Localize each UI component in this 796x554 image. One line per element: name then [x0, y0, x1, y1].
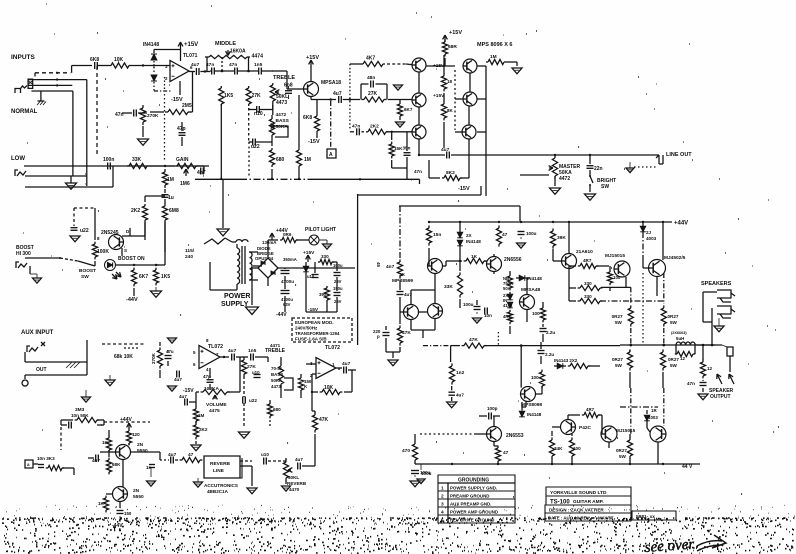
label +15V ps [303, 250, 315, 262]
wire aux mid [160, 342, 168, 378]
svg-text:u22: u22 [249, 398, 257, 403]
jack AUX OUT [22, 367, 47, 386]
resistor 1K drv2 [98, 496, 109, 513]
wire y155 lineout [418, 154, 659, 156]
svg-text:10n 50K: 10n 50K [71, 413, 89, 418]
diode 2X IN4148 pa [457, 222, 481, 252]
label DIODE BRIDGE [255, 246, 274, 261]
resistor 33K [127, 157, 149, 169]
capacitor 1u [162, 195, 174, 201]
svg-text:A: A [329, 152, 333, 158]
wire rev ret [268, 460, 286, 462]
svg-text:1n2: 1n2 [456, 370, 465, 376]
resistor 39K pa [550, 228, 566, 248]
resistor 120 drv [126, 429, 140, 446]
wire diode dotted mid [153, 61, 155, 73]
jack speaker 1 [717, 290, 735, 302]
label -15V ps [308, 307, 319, 313]
wire x223 vert [222, 179, 224, 228]
svg-text:115/: 115/ [185, 248, 195, 254]
pin 6 [190, 65, 193, 70]
svg-text:u22: u22 [80, 228, 89, 234]
label 2N6556 [504, 257, 522, 263]
svg-text:0R27: 0R27 [668, 357, 679, 362]
capacitor 10u ps [307, 274, 319, 279]
resistor 2K2 aux [193, 423, 207, 440]
wire bank col left [406, 63, 412, 66]
wire mpsa48 [514, 278, 543, 322]
svg-text:POWER SUPPLY GND.: POWER SUPPLY GND. [450, 486, 497, 491]
resistor 12 outA [675, 351, 695, 361]
transistor 2N6553 [487, 427, 502, 442]
label VOLUME 4475 [206, 402, 227, 414]
svg-text:680: 680 [273, 407, 281, 412]
capacitor 4700u a [281, 271, 295, 285]
ground speakers [714, 318, 724, 332]
svg-text:100: 100 [532, 311, 540, 316]
svg-text:+15V: +15V [303, 250, 315, 256]
node A box [327, 149, 336, 158]
label 47n bank [414, 169, 422, 174]
wire 6k8 [316, 100, 318, 139]
svg-text:n10: n10 [254, 111, 263, 117]
capacitor 100u drv [117, 511, 132, 517]
svg-text:IN4148: IN4148 [466, 239, 481, 244]
wire drv dash [61, 422, 150, 450]
svg-text:TREBLE: TREBLE [265, 348, 286, 354]
svg-text:34K: 34K [554, 446, 563, 451]
ground 100u pa3 [410, 475, 420, 487]
capacitor 47u aux [165, 349, 174, 359]
jack LINE OUT [656, 155, 663, 164]
wire rev pot [286, 452, 315, 484]
label 50KL REVERB 4470 [287, 475, 307, 492]
svg-text:21A610: 21A610 [576, 249, 593, 255]
wire aux treble bot [268, 357, 301, 398]
svg-text:REVERB: REVERB [287, 481, 307, 486]
capacitor 4n7 pa low [448, 392, 464, 397]
resistor 8K2 [442, 170, 462, 181]
capacitor 2u2 paB [538, 351, 555, 358]
wire 680 aux [269, 400, 271, 426]
svg-text:ACCUTRONICS: ACCUTRONICS [204, 483, 238, 488]
diode IN4148 c [516, 275, 542, 281]
resistor 1M aux [193, 407, 204, 424]
resistor 1M bank [486, 54, 506, 65]
op-amp U1 TL071 [170, 53, 198, 82]
resistor 47 pa2 [495, 446, 508, 464]
wire mps8098 [522, 386, 542, 407]
wire u2 out [220, 356, 229, 358]
resistor 6M8 low [162, 204, 179, 222]
resistor 0R27 a [612, 305, 634, 326]
svg-text:GUITAR AMP.: GUITAR AMP. [573, 499, 604, 505]
label TIP42C [579, 425, 592, 431]
box REVERB LINE [204, 456, 242, 478]
svg-text:5550: 5550 [137, 448, 148, 454]
note see over [644, 535, 726, 554]
wire 1M up [298, 95, 300, 179]
svg-text:16K0A: 16K0A [230, 49, 246, 55]
wire opamp vcc [180, 50, 182, 62]
label -44V drv [112, 516, 123, 529]
wire 48n box [361, 84, 387, 100]
svg-text:5W: 5W [619, 454, 627, 459]
capacitor 4u7 rev [168, 452, 177, 464]
svg-text:1K5: 1K5 [224, 93, 233, 99]
capacitor u10 rev [261, 452, 269, 465]
wire u22 dash [74, 208, 95, 226]
svg-text:4u7: 4u7 [174, 377, 182, 382]
label MJ4502 [664, 255, 686, 261]
resistor 68R [442, 40, 457, 57]
svg-text:u10: u10 [252, 370, 260, 375]
pin 5 [193, 350, 196, 355]
wire 0r27e [609, 388, 631, 464]
ground lineout [626, 162, 656, 173]
svg-text:2K2: 2K2 [370, 124, 379, 130]
capacitor 47p [177, 126, 186, 135]
wire pa fb node [460, 300, 495, 311]
wire bank col right [455, 99, 486, 132]
junction rail [520, 221, 522, 223]
junction bottom rail [451, 463, 453, 465]
wire mid wiper [226, 50, 231, 56]
wire high input rowC [31, 90, 73, 92]
transistor MPS8599 b [404, 305, 419, 320]
capacitor 4n7 gain [197, 168, 206, 177]
svg-text:150u: 150u [333, 286, 343, 291]
svg-text:27K: 27K [368, 91, 378, 97]
wire fb pa [386, 305, 400, 358]
label -44V ps [276, 312, 287, 318]
wire pa top edge [399, 206, 520, 221]
capacitor 220p [373, 329, 390, 339]
svg-text:AUX INPUT: AUX INPUT [21, 330, 54, 336]
resistor 10K u3 [320, 385, 343, 395]
label +15V b3 [433, 93, 445, 99]
wire a net [33, 464, 74, 475]
label -15V opamp [171, 97, 183, 103]
wire 27k leads [350, 64, 412, 129]
svg-text:4: 4 [441, 510, 444, 516]
ground bank [512, 68, 522, 74]
lamp pilot [306, 235, 319, 245]
svg-text:+15V: +15V [306, 55, 319, 61]
svg-text:1K5: 1K5 [161, 274, 170, 280]
switch mains [204, 238, 232, 244]
wire opamp vee [179, 81, 181, 95]
wire vol tap [189, 392, 196, 407]
junction rail [662, 221, 664, 223]
wire ps rails [252, 268, 355, 305]
label 2N5610 [576, 249, 593, 255]
wire y64 top [350, 63, 406, 65]
svg-text:5550: 5550 [133, 494, 144, 500]
resistor 680 [269, 148, 284, 167]
wire bright [589, 155, 591, 176]
wire aux dash top [102, 343, 144, 345]
pin 3 [165, 64, 168, 69]
svg-text:MJ4502/5: MJ4502/5 [664, 255, 686, 261]
pot MIDDLE 16K0A [205, 49, 250, 59]
ground out [698, 394, 708, 400]
wire emitters [419, 72, 470, 155]
wire tip42 [552, 415, 602, 440]
wire t2 [237, 70, 258, 73]
capacitor 35n [403, 146, 411, 156]
junction bottom rail [662, 463, 664, 465]
svg-text:240: 240 [185, 254, 193, 260]
svg-text:5W: 5W [670, 363, 678, 368]
wire ltp [411, 222, 435, 305]
svg-text:4K7: 4K7 [366, 56, 375, 62]
wire to aux treble [255, 356, 268, 358]
capacitor 4u7 vol [179, 394, 187, 406]
svg-text:100u: 100u [333, 263, 343, 268]
resistor 1K drv [102, 436, 112, 453]
label 4471 [270, 343, 281, 348]
wire bias2 [350, 131, 412, 133]
wire 4r7 pa2 [569, 266, 609, 268]
resistor 15n pa [426, 225, 441, 245]
resistor 68K drv [106, 458, 121, 475]
svg-text:100n: 100n [103, 157, 114, 163]
svg-text:2J: 2J [646, 230, 652, 235]
svg-text:120: 120 [132, 432, 140, 437]
wire xfmr [204, 244, 262, 290]
scan noise band bottom [2, 518, 795, 552]
svg-text:10n 3K3: 10n 3K3 [37, 456, 55, 461]
svg-text:4BB2C1A: 4BB2C1A [207, 489, 229, 494]
svg-text:4u7: 4u7 [191, 62, 200, 68]
svg-text:4472: 4472 [276, 112, 287, 118]
wire ps bottom [268, 285, 300, 287]
wire out to bus [200, 70, 210, 72]
svg-text:OUT: OUT [36, 367, 47, 373]
wire bank box bottom [358, 186, 481, 195]
transistor MPS8098 [521, 387, 536, 402]
diode 2J4003 [640, 222, 656, 256]
transformer T1 primary [237, 248, 240, 284]
svg-text:4n7: 4n7 [386, 264, 395, 270]
jack BOOST [16, 262, 27, 268]
wire aux tone net [241, 357, 258, 428]
svg-text:4473: 4473 [276, 100, 287, 106]
label 100u tbl [420, 470, 431, 475]
svg-text:47u: 47u [166, 349, 174, 354]
ground pa low [447, 402, 457, 408]
ground master [550, 188, 561, 194]
resistor 100 pa [532, 306, 546, 323]
junction rail [642, 221, 644, 223]
svg-text:100u: 100u [526, 231, 537, 236]
svg-text:6K7: 6K7 [139, 274, 148, 280]
ground aux2 [168, 338, 177, 343]
transistor 2N5550b [113, 487, 128, 502]
junction rail [498, 221, 500, 223]
jack AUX [27, 342, 45, 352]
resistor 12 outB [700, 360, 712, 379]
resistor 4R7 pa2 [578, 258, 598, 269]
svg-text:BOOST: BOOST [79, 268, 96, 274]
svg-text:2: 2 [441, 494, 444, 500]
capacitor 100u pa3 [411, 471, 432, 477]
wire x223 to boost [222, 178, 224, 180]
wire dashed v2 [164, 77, 166, 162]
svg-text:4470: 4470 [289, 487, 300, 492]
svg-text:1K: 1K [102, 440, 109, 445]
scan noise bottom edge row [5, 543, 793, 554]
pot REVERB 50KL [283, 459, 292, 480]
resistor 10K [109, 57, 131, 68]
LED boost [105, 260, 122, 280]
svg-text:68K: 68K [112, 462, 121, 467]
svg-text:4R7: 4R7 [586, 407, 595, 412]
svg-text:68R: 68R [448, 44, 457, 50]
ground bias1 [394, 85, 403, 90]
scan noise band mid [6, 505, 795, 525]
resistor 0R27 c [612, 349, 633, 370]
svg-text:TL071: TL071 [183, 53, 198, 59]
transistor MJ15015 a [614, 261, 630, 277]
svg-text:NORMAL: NORMAL [11, 109, 38, 115]
junction bottom rail [629, 463, 631, 465]
svg-text:TL072: TL072 [208, 344, 223, 350]
wire pa in [399, 280, 401, 305]
wire speakers [703, 290, 717, 322]
svg-text:S: S [124, 248, 127, 253]
svg-text:PREAMP GROUND: PREAMP GROUND [450, 494, 489, 499]
label 10n 3K3 [37, 456, 55, 461]
svg-text:2N: 2N [133, 488, 140, 494]
wire bass wiper [271, 124, 288, 137]
label BRIGHT SW [597, 178, 616, 190]
label 3X MPS8599 [392, 272, 413, 284]
svg-text:4472: 4472 [559, 176, 570, 182]
wire dashed x249 low [248, 142, 250, 177]
ground big mid [217, 229, 229, 236]
resistor 8K bank [441, 102, 453, 121]
svg-text:2K2: 2K2 [131, 208, 140, 214]
resistor 47 rev [180, 452, 203, 463]
svg-text:390: 390 [319, 292, 327, 297]
capacitor 100p [487, 406, 498, 420]
capacitor 47n bias2 [352, 124, 360, 136]
resistor 0R27 d [660, 349, 679, 370]
wire output node [620, 328, 715, 388]
capacitor 150p 25V [333, 286, 343, 304]
resistor 6K7 bias [397, 100, 412, 121]
capacitor 4u7 bank [441, 147, 450, 159]
diode zener15 [303, 262, 309, 282]
node a box [25, 460, 33, 468]
svg-text:330: 330 [321, 254, 329, 259]
svg-text:+44V: +44V [120, 417, 132, 423]
label MPSA48 pa [521, 287, 541, 293]
ground input chassis [37, 91, 46, 105]
wire bus y179 [195, 178, 420, 184]
label +44V drv [120, 417, 132, 429]
inductor 5uH [671, 331, 695, 345]
ground rev3 [147, 468, 156, 486]
wire u3 down [311, 391, 313, 411]
svg-text:33K: 33K [444, 284, 453, 290]
svg-text:47n: 47n [414, 169, 422, 174]
pin 1b [332, 362, 335, 367]
table GROUNDING [438, 475, 515, 524]
svg-text:1: 1 [441, 486, 444, 492]
wire mpsa base [272, 71, 303, 89]
label SPEAKER OUTPUT [709, 388, 734, 400]
wire cap to 10K [97, 65, 109, 67]
wire input corner [72, 66, 73, 177]
wire dashdot y91 [154, 90, 171, 92]
svg-text:4u7: 4u7 [333, 91, 342, 97]
transistor MPSA18 [304, 82, 319, 97]
capacitor 47n t1 [206, 62, 214, 75]
resistor 27K aux [241, 358, 256, 377]
svg-text:0R27: 0R27 [612, 357, 623, 362]
wire t1 [210, 70, 234, 73]
resistor 470 pa [402, 441, 418, 462]
wire bank left low [428, 160, 430, 178]
capacitor 100n [103, 157, 114, 170]
ground aux tone [239, 432, 250, 438]
svg-text:MPS 8096 X 6: MPS 8096 X 6 [477, 42, 512, 48]
svg-text:2M5: 2M5 [182, 103, 192, 109]
svg-text:1R: 1R [651, 408, 657, 413]
wire 47pa2 [494, 434, 498, 464]
wire A dashdot [330, 101, 332, 149]
resistor 220K fb [140, 105, 145, 125]
resistor 4R7 pa3 [582, 407, 600, 418]
wire master [520, 175, 555, 186]
table title block [545, 487, 676, 521]
svg-text:47K: 47K [319, 417, 329, 423]
svg-text:100u: 100u [463, 302, 474, 307]
resistor 33K pa [444, 272, 463, 297]
wire input gnd stem [33, 90, 41, 92]
svg-text:-15V: -15V [458, 186, 470, 192]
svg-text:5W: 5W [670, 320, 678, 325]
resistor 150K aux [298, 376, 311, 393]
wire t3 [261, 70, 272, 72]
wire 34k100 [535, 431, 572, 464]
resistor 34K pa [549, 437, 563, 458]
pot VOLUME 100KA [201, 386, 230, 399]
junction rail [552, 221, 554, 223]
resistor 330 paA [578, 281, 603, 291]
resistor 390 ps [319, 286, 330, 302]
svg-text:68k 10K: 68k 10K [114, 354, 133, 360]
svg-text:8K2: 8K2 [446, 170, 455, 176]
ground rev1 [194, 478, 203, 487]
resistor 750R pa [503, 274, 513, 291]
svg-text:1M: 1M [167, 177, 174, 183]
ground 100u pa2 [473, 312, 482, 323]
resistor 100 pa2 [607, 270, 620, 285]
wire 33k pa [459, 252, 461, 308]
label 2N5550b [133, 488, 144, 500]
svg-text:2N6553: 2N6553 [506, 433, 524, 439]
wire u3 out [336, 345, 356, 370]
wire 15k35n [392, 132, 407, 179]
label SPEAKERS [701, 281, 732, 287]
wire 47p [181, 122, 183, 146]
transistor 2N5610 [562, 254, 577, 269]
svg-text:GROUNDING: GROUNDING [458, 478, 489, 484]
